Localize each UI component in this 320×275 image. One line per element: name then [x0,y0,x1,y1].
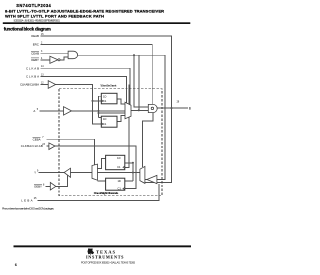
wire FF2 out to mux [117,115,125,121]
svg-text:To Seven Other Channels: To Seven Other Channels [100,85,117,88]
svg-text:B: B [189,106,191,110]
wire FF4 out to left mux [98,180,106,182]
wire row10 into buffer [46,145,49,147]
svg-text:A: A [33,109,35,113]
svg-text:WITH SPLIT LVTTL PORT AND FEED: WITH SPLIT LVTTL PORT AND FEEDBACK PATH [5,13,104,18]
wire stub FF3 D [125,162,133,164]
wire inverter out up into AND [60,57,68,60]
svg-text:CLKAB: CLKAB [26,66,39,70]
buffer row10 [49,143,55,150]
svg-text:C1: C1 [103,122,107,126]
wire OEAB row1 [41,36,172,182]
clock wedge FF3 [123,166,125,168]
svg-text:OEBY: OEBY [31,58,39,62]
overbars [31,51,42,184]
wire driver bottom feedback to lower mux [143,113,153,168]
svg-text:SN74GTLP2034: SN74GTLP2034 [16,3,51,8]
inverter row4 [50,56,58,63]
flip-flop FF4 [106,178,125,190]
wire clock stub FF1 [93,100,102,102]
wire lower mux out across to left mux [98,172,140,174]
wire ERC row2 to driver top [41,45,153,105]
wire row10 buffer out clock spine lower [55,146,136,189]
wire mux out to driver [131,109,148,111]
wire row7 buffer out to clock spine [56,85,102,125]
clock wedge FF2 [101,123,103,125]
wire A buffer out to mux [72,110,126,112]
wire A input row [40,110,64,112]
header rule [3,22,191,24]
svg-text:1D: 1D [103,117,106,121]
junction dots [91,54,172,173]
Y output driver [64,168,70,177]
svg-text:One of Eight Channels: One of Eight Channels [94,191,119,195]
buffer A input [64,107,72,115]
svg-text:1D: 1D [117,156,120,160]
svg-text:CLKBA: CLKBA [26,75,39,79]
footer rule [14,245,192,247]
svg-text:ERC: ERC [33,43,39,47]
svg-text:6: 6 [15,263,17,267]
wire stub FF1 D [99,95,102,97]
wire r7 lower clock drop [125,85,129,168]
flip-flop internal labels [103,95,121,191]
svg-text:1D: 1D [103,95,106,99]
mux lower right [140,166,145,183]
flip-flop FF3 [106,155,125,169]
AND gate [68,51,78,59]
wire lower data spine [132,163,134,181]
svg-text:OEBY: OEBY [34,185,42,189]
wire row12 into buffer [46,185,51,187]
wire Y driver out to Y pad [39,172,65,174]
wire OEBY row4 into inverter [41,59,50,61]
wire row12 buffer out to Y driver enable [56,175,68,186]
wire A data spine [98,96,100,117]
wire AND branch down to driver enable [134,55,148,107]
wire B buffer to lower mux [145,179,147,181]
wire CLKBA row6 to mux select [41,76,127,102]
svg-text:Pin numbers shown are for the: Pin numbers shown are for the DGG and DG… [2,207,54,211]
wire FF3 out to left mux [98,159,106,169]
wire AND output [78,55,165,179]
wire stub FF2 D [99,116,102,118]
wire row7 into buffer [41,84,49,86]
svg-text:functional block diagram: functional block diagram [4,27,51,32]
dashed box One of Eight Channels [59,89,162,196]
TI logo [86,248,124,259]
wire CLKAB row5 to mux select [41,68,130,105]
mux upper [125,102,131,119]
svg-text:C1: C1 [117,165,121,169]
wire left mux out to Y driver [71,172,93,174]
B input buffer [147,175,157,183]
wire row13 bottom run [38,184,159,201]
svg-text:INSTRUMENTS: INSTRUMENTS [86,255,124,260]
wire row9 to left mux select [46,139,94,165]
svg-text:POST OFFICE BOX 655303 • DALLA: POST OFFICE BOX 655303 • DALLAS, TEXAS 7… [81,262,136,265]
wire FF1 out to mux [117,99,125,104]
clock wedge FF4 [123,187,125,189]
left pin labels [20,34,43,203]
wire CEAB row3 into AND [41,52,68,54]
svg-text:CLKBA/CLKAB: CLKBA/CLKAB [21,144,43,148]
svg-text:CEBA: CEBA [33,137,41,141]
svg-text:CLKAB/CLKBA: CLKAB/CLKBA [20,83,39,87]
svg-text:C1: C1 [103,99,107,103]
clock wedge FF1 [101,100,103,102]
svg-text:1D: 1D [117,179,120,183]
buffer row12 [50,182,56,190]
svg-text:OEAB: OEAB [31,34,39,38]
driver B port [148,104,157,112]
svg-text:CEAB: CEAB [31,51,39,55]
wire A tap to mux second input [99,112,126,114]
mux lower left [92,164,98,180]
flip-flop FF1 [101,93,117,104]
wire stub FF4 D [125,180,133,182]
svg-text:SCES332A – JUNE 2001 – REVISED: SCES332A – JUNE 2001 – REVISED SEPTEMBER… [14,19,61,22]
wire AND drop to mux-out junction [138,55,140,110]
buffer row7 [48,81,55,89]
flip-flop FF2 [101,116,117,127]
svg-text:Y: Y [34,170,36,174]
wire driver output to B pad [157,107,188,109]
